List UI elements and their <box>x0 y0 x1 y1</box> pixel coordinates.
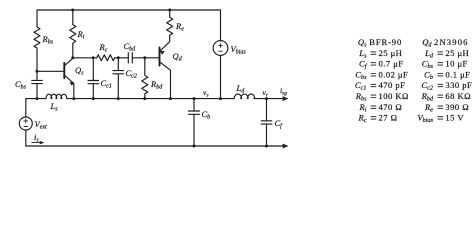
junction Q_s base node <box>36 70 39 73</box>
svg-text:vs: vs <box>203 88 208 98</box>
capacitor C_b <box>189 99 200 146</box>
svg-text:vr: vr <box>263 88 269 98</box>
wire base node to Q_s base <box>37 70 64 72</box>
transistor Q_s <box>63 63 65 79</box>
junction R_i top rail <box>71 9 74 12</box>
wire R_c to C_bd <box>115 57 129 59</box>
svg-text:isg: isg <box>280 86 287 96</box>
svg-text:68 KΩ: 68 KΩ <box>445 91 471 101</box>
svg-text:Ls: Ls <box>50 101 59 113</box>
junction V_bias rail <box>219 97 222 100</box>
svg-text:Rbd: Rbd <box>421 91 434 103</box>
svg-text:330 pF: 330 pF <box>445 80 472 90</box>
junction R_e top rail <box>168 9 171 12</box>
wire node row to R_c <box>73 57 97 59</box>
arrow bottom rail end <box>283 144 288 148</box>
node v_r junction <box>265 97 268 100</box>
svg-text:Ri: Ri <box>359 102 367 114</box>
resistor R_bd <box>142 58 148 99</box>
junction C_f bottom rail <box>265 145 268 148</box>
svg-text:Vbias: Vbias <box>417 113 433 125</box>
wire mid rail left <box>37 98 46 100</box>
svg-text:27 Ω: 27 Ω <box>379 113 398 123</box>
svg-text:Vbias: Vbias <box>231 44 247 56</box>
wire left drop upper <box>36 10 38 27</box>
svg-text:Cf: Cf <box>275 118 284 130</box>
transistor Q_d <box>159 48 161 66</box>
svg-text:Cbs: Cbs <box>15 79 27 91</box>
inductor L_s <box>46 94 67 98</box>
junction C_b bottom rail <box>193 145 196 148</box>
arrow i_s under V_ext <box>32 142 40 144</box>
wire mid rail <box>67 98 234 100</box>
wire V_bias drop <box>220 10 222 41</box>
svg-text:470 pF: 470 pF <box>379 80 406 90</box>
arrow i_sg wire end <box>283 97 288 101</box>
junction C_bs bottom <box>36 97 39 100</box>
svg-text:Cbs: Cbs <box>422 59 434 71</box>
svg-text:Rc: Rc <box>358 113 367 125</box>
svg-text:Ld: Ld <box>424 48 434 60</box>
junction C_c1 bottom <box>92 97 95 100</box>
wire C_bd to Q_d base <box>132 57 159 59</box>
junction C_c2 top <box>117 56 120 59</box>
capacitor C_c2 <box>113 58 124 99</box>
junction R_bd bottom <box>143 97 146 100</box>
wire C_bs to rail <box>36 84 38 99</box>
wire V_ext to bottom rail <box>25 130 27 146</box>
resistor R_i <box>70 10 76 58</box>
junction C_b top <box>193 97 196 100</box>
svg-text:Ri: Ri <box>77 29 85 41</box>
svg-text:0.1 μF: 0.1 μF <box>445 69 470 79</box>
svg-text:Cbs: Cbs <box>355 69 367 81</box>
svg-text:Rbd: Rbd <box>150 79 163 91</box>
wire bottom rail <box>26 145 284 147</box>
svg-text:Ld: Ld <box>236 83 246 95</box>
svg-text:Ls: Ls <box>358 48 367 60</box>
svg-text:0.7 μF: 0.7 μF <box>379 59 404 69</box>
capacitor C_f <box>261 99 272 146</box>
junction C_c1 top <box>92 56 95 59</box>
svg-text:Cb: Cb <box>202 109 211 121</box>
source V_bias <box>213 41 228 56</box>
svg-text:Cc2: Cc2 <box>421 80 433 92</box>
wire mid rail right <box>254 98 284 100</box>
svg-text:Cf: Cf <box>359 59 368 71</box>
svg-text:15 V: 15 V <box>445 113 464 123</box>
svg-text:Re: Re <box>424 102 433 114</box>
wire R_bs to base node <box>36 48 38 71</box>
svg-text:Cc2: Cc2 <box>126 68 137 80</box>
svg-text:Qd: Qd <box>422 37 432 49</box>
resistor R_c <box>97 55 115 61</box>
junction R_bd top <box>143 56 146 59</box>
svg-text:Cbd: Cbd <box>124 41 137 53</box>
resistor R_bs <box>34 27 40 48</box>
svg-text:2N3906: 2N3906 <box>434 37 469 47</box>
junction C_c2 bottom <box>117 97 120 100</box>
svg-text:390 Ω: 390 Ω <box>445 102 469 112</box>
resistor R_e <box>167 10 173 37</box>
svg-text:0.02 μF: 0.02 μF <box>379 69 409 79</box>
junction Q_s collector node <box>71 56 74 59</box>
wire top rail <box>37 9 221 11</box>
svg-text:Cc1: Cc1 <box>101 78 112 90</box>
wire base node to C_bs <box>36 71 38 80</box>
svg-text:100 KΩ: 100 KΩ <box>379 91 409 101</box>
wire V_bias to rail <box>220 55 222 98</box>
component value table <box>355 37 472 124</box>
capacitor C_bd <box>128 53 132 63</box>
junction Q_d collector rail <box>169 97 172 100</box>
svg-text:10 μF: 10 μF <box>445 59 467 69</box>
svg-text:BFR-90: BFR-90 <box>369 37 402 47</box>
source V_ext <box>19 117 32 130</box>
+ - signs V_ext <box>24 119 28 127</box>
svg-text:Qs: Qs <box>358 37 367 49</box>
svg-text:Rc: Rc <box>99 42 108 54</box>
inductor L_d <box>234 94 255 99</box>
svg-text:Re: Re <box>175 21 184 33</box>
wire rail to V_ext <box>26 99 37 117</box>
svg-text:25 μH: 25 μH <box>379 48 403 58</box>
svg-text:Cb: Cb <box>424 69 433 81</box>
svg-text:Rbs: Rbs <box>42 34 54 46</box>
svg-text:Rbs: Rbs <box>355 91 367 103</box>
svg-text:25 μH: 25 μH <box>445 48 469 58</box>
svg-text:Vext: Vext <box>35 119 48 131</box>
svg-text:Qd: Qd <box>173 51 183 63</box>
+ - signs V_bias <box>218 43 222 51</box>
svg-text:Qs: Qs <box>75 65 84 77</box>
junction Q_s emitter rail <box>72 97 75 100</box>
capacitor C_c1 <box>88 58 99 99</box>
svg-text:Cc1: Cc1 <box>355 80 367 92</box>
capacitor C_bs <box>32 80 43 83</box>
svg-text:470 Ω: 470 Ω <box>379 102 403 112</box>
svg-text:is: is <box>34 132 39 144</box>
